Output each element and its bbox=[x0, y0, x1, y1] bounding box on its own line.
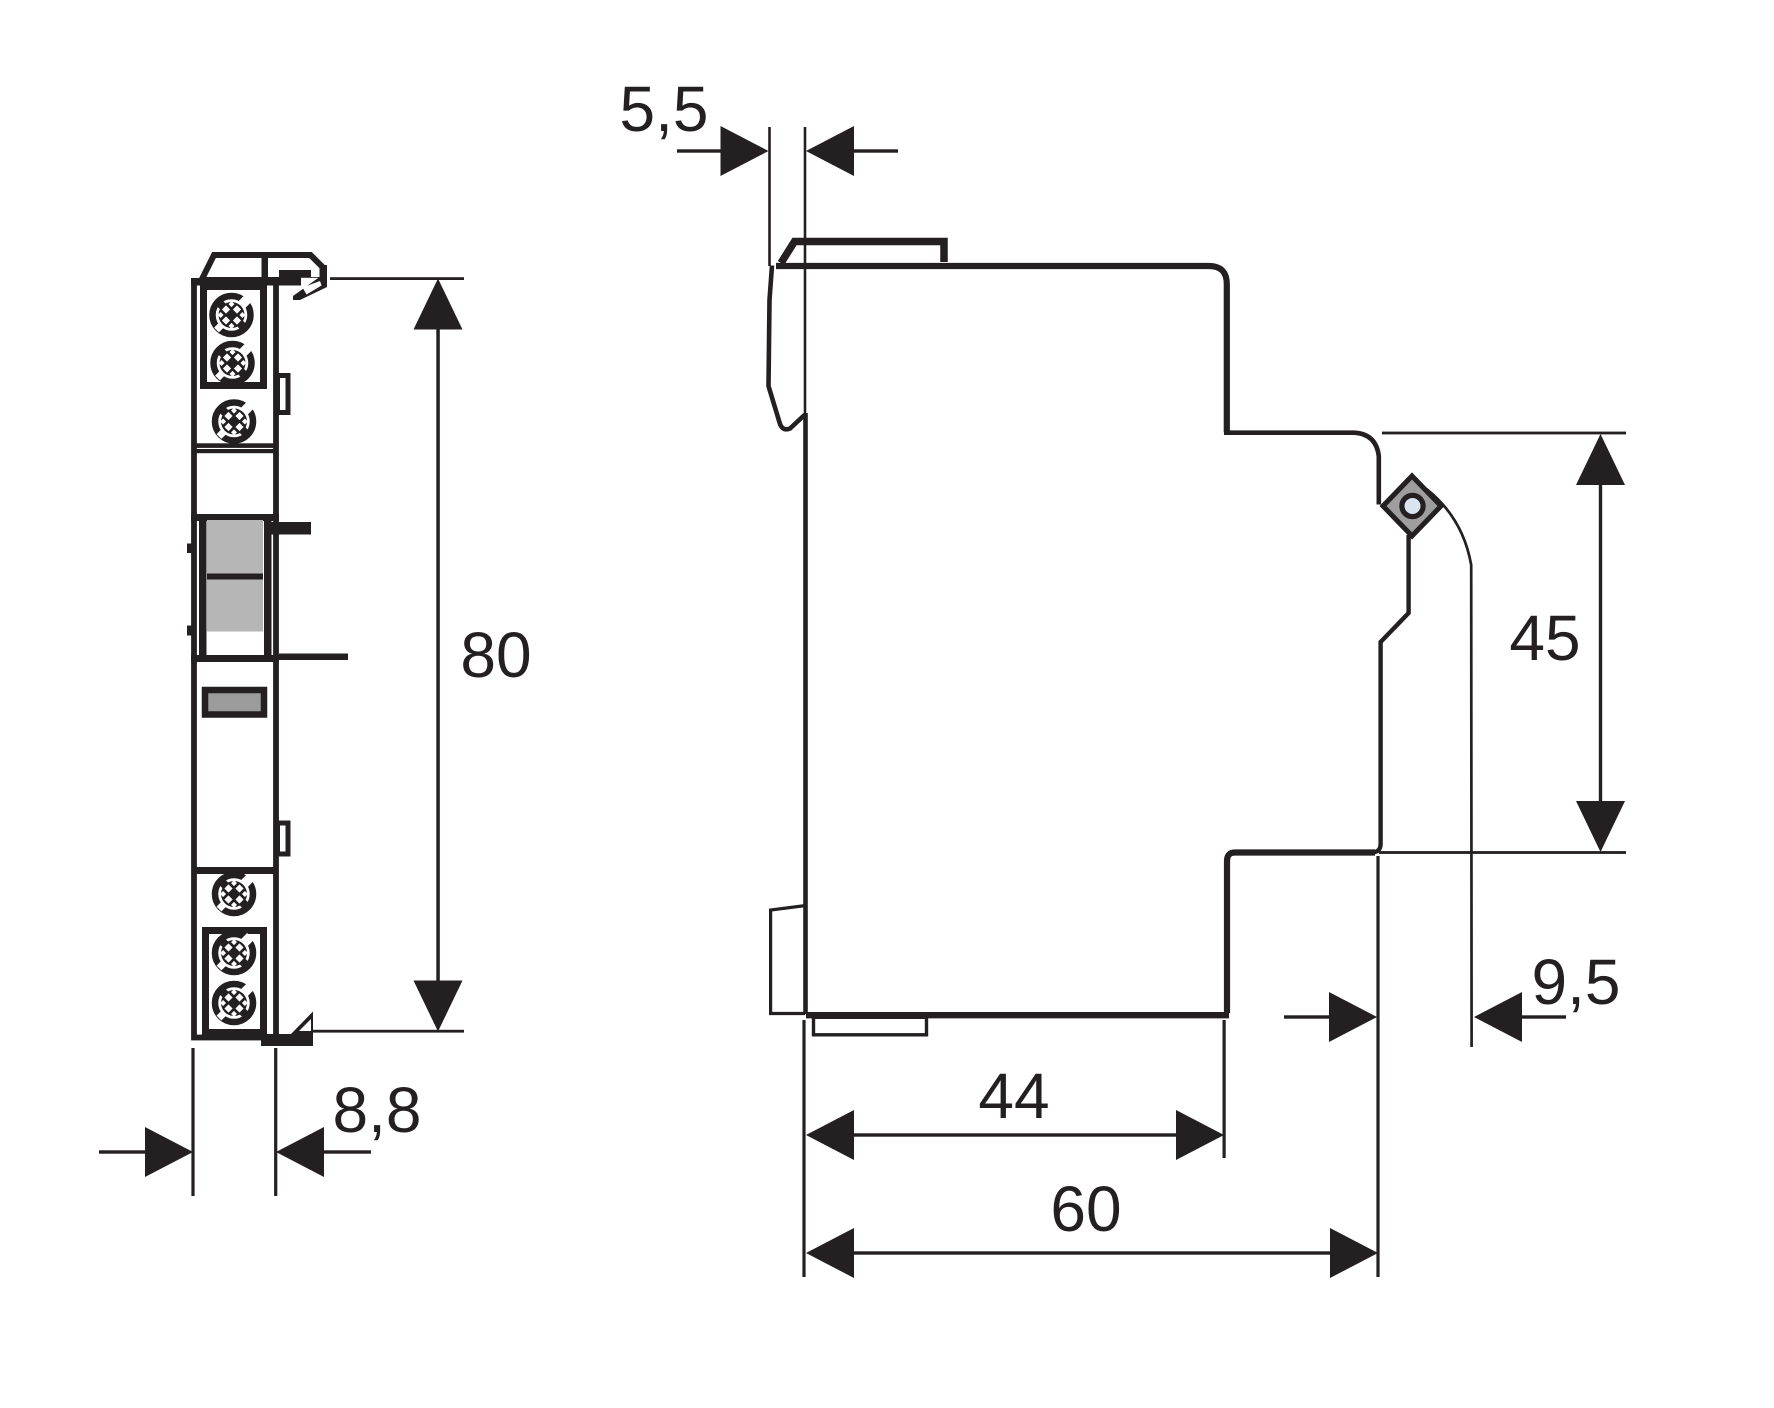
front view: top rail clip trapezoid bbox=[202, 255, 323, 280]
dimension 44: left extension line bbox=[802, 1020, 805, 1277]
dimension 5,5: left extension line bbox=[768, 127, 771, 266]
front view: toggle gray handle lower bbox=[207, 580, 263, 632]
side view: lower DIN clip jaw bbox=[771, 906, 806, 1014]
dimension 60: right arrowhead bbox=[1330, 1228, 1378, 1278]
dimension 80: vertical line bbox=[436, 329, 440, 982]
dimension 5,5: right arrowhead bbox=[806, 126, 854, 176]
front view: left nub lower bbox=[187, 626, 192, 636]
dimension 9,5: right tail line bbox=[1521, 1015, 1566, 1018]
screw terminal 6 bbox=[215, 983, 254, 1022]
side view: upper DIN clip jaw bbox=[769, 266, 805, 430]
front view: toggle section bottom line bbox=[191, 655, 279, 662]
screw diamond bbox=[1383, 476, 1441, 536]
dimension 9,5: right arrowhead bbox=[1474, 992, 1522, 1042]
screw terminal 1 bbox=[213, 295, 252, 334]
dimension 80: top extension line bbox=[330, 277, 464, 280]
front view: lower terminal box bbox=[206, 931, 264, 1033]
front view: toggle section top line bbox=[191, 514, 279, 521]
front view: right mid line bbox=[279, 654, 348, 661]
dimension 45: bottom extension line bbox=[1379, 851, 1626, 854]
dimension 60: line bbox=[852, 1251, 1332, 1254]
side view: top edge and upper right edge bbox=[776, 266, 1227, 433]
front view: top thick edge line bbox=[191, 278, 301, 286]
svg-text:9,5: 9,5 bbox=[1532, 946, 1621, 1018]
front view: clip right slot bar bbox=[279, 270, 311, 279]
front view: bottom clip hook bbox=[291, 1012, 313, 1035]
dimension 8,8: right arrowhead bbox=[276, 1127, 324, 1177]
screw terminal 2 bbox=[214, 343, 253, 382]
side view: left edge lower bbox=[803, 413, 808, 1014]
screw terminal 3 bbox=[215, 402, 254, 441]
dimension 44: line bbox=[852, 1133, 1178, 1136]
side view: bottom tab bbox=[814, 1017, 927, 1035]
dimension 9,5: left arrowhead bbox=[1329, 992, 1377, 1042]
front view: right side tab lower bbox=[278, 823, 289, 854]
front view: bottom clip bar bbox=[261, 1034, 313, 1046]
side view: left edge upper thin bbox=[804, 127, 807, 420]
front view: left nub upper bbox=[187, 544, 192, 554]
screw diamond center hole bbox=[1402, 495, 1423, 516]
dimension 44: right arrowhead bbox=[1176, 1110, 1224, 1160]
side view: upper step and corner into thin profile bbox=[1224, 433, 1379, 505]
front view: toggle inner left wall bbox=[199, 521, 207, 658]
front view: lower divider line bbox=[194, 867, 278, 874]
dimension 9,5: left tail line bbox=[1284, 1015, 1331, 1018]
dimension 45: bottom arrowhead bbox=[1576, 801, 1625, 852]
dimension 5,5: left tail line bbox=[677, 149, 722, 152]
dimension 60: left arrowhead bbox=[806, 1228, 854, 1278]
dimension 8,8: right tail line bbox=[324, 1150, 371, 1153]
front view: clip right edge column bbox=[320, 265, 328, 286]
dimension 8,8: left extension line bbox=[191, 1048, 194, 1196]
svg-text:44: 44 bbox=[978, 1060, 1049, 1132]
svg-text:8,8: 8,8 bbox=[333, 1074, 422, 1146]
front view: bottom clip hook white notch bbox=[299, 1019, 311, 1031]
front view: toggle divider bbox=[207, 574, 263, 580]
svg-text:5,5: 5,5 bbox=[620, 73, 709, 145]
side view: bottom step and lower right edge bbox=[1227, 853, 1375, 1014]
dimension 80: top arrowhead bbox=[414, 279, 463, 330]
front view: toggle inner right wall bbox=[264, 521, 272, 658]
screw terminal 5 bbox=[215, 933, 254, 972]
svg-text:45: 45 bbox=[1509, 602, 1580, 674]
dimension 45: vertical line bbox=[1599, 483, 1602, 805]
dimension 45: top extension line bbox=[1382, 432, 1626, 435]
dimension 44: right extension line bbox=[1223, 1020, 1226, 1158]
side view: rounded corner contour line bbox=[1427, 489, 1472, 1047]
dimension 80: bottom arrowhead bbox=[414, 981, 463, 1032]
front view: clip hook white notch bbox=[303, 281, 322, 295]
front view: label window bbox=[205, 690, 264, 715]
dimension 5,5: right tail line bbox=[853, 149, 898, 152]
front view: upper terminal box bbox=[204, 287, 264, 386]
front view: clip right white gap bbox=[301, 278, 320, 285]
svg-text:80: 80 bbox=[460, 619, 531, 691]
front view: toggle right black tab bbox=[266, 522, 311, 535]
dimension 60: right extension line bbox=[1376, 856, 1379, 1277]
screw terminal 4 bbox=[215, 874, 254, 913]
front view: double divider lines bbox=[196, 443, 274, 448]
svg-text:60: 60 bbox=[1050, 1173, 1121, 1245]
front view: clip slot divider bbox=[262, 256, 269, 281]
dimension 80: bottom extension line bbox=[313, 1030, 464, 1033]
dimension 44: left arrowhead bbox=[806, 1110, 854, 1160]
side view: bottom edge line bbox=[806, 1012, 1229, 1018]
dimension 5,5: left arrowhead bbox=[721, 126, 769, 176]
front view: toggle gray handle upper bbox=[207, 520, 263, 574]
side view: top mounting tab bbox=[781, 242, 944, 264]
dimension 8,8: right extension line bbox=[274, 1048, 277, 1196]
dimension 8,8: left tail line bbox=[99, 1150, 146, 1153]
front view: clip right hook bbox=[293, 277, 327, 300]
side view: lower thin profile with notch bbox=[1371, 535, 1409, 853]
front view: right side tab upper bbox=[278, 376, 289, 413]
dimension 45: top arrowhead bbox=[1576, 434, 1625, 485]
dimension 8,8: left arrowhead bbox=[145, 1127, 193, 1177]
front view: body outline bbox=[194, 282, 276, 1038]
